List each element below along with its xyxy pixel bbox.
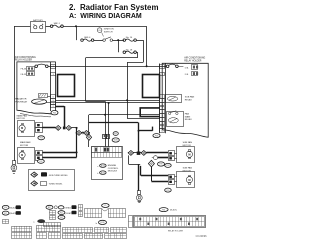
svg-text:B135: B135 — [101, 222, 105, 224]
connector grid F2 — [62, 233, 82, 238]
svg-text:SUB FAN: SUB FAN — [185, 96, 195, 99]
thick jumper loop (left) — [58, 75, 75, 97]
node B junction — [117, 39, 119, 41]
svg-text:FB-38: FB-38 — [21, 69, 27, 71]
node J junction — [76, 151, 78, 153]
air conditioning relay holder (left) box — [17, 62, 56, 114]
wire thick bus vertical — [138, 122, 140, 153]
ECM top connector row 1 — [92, 147, 122, 153]
connector grid H — [111, 228, 127, 233]
node H junction — [76, 127, 78, 129]
wire bus vertical x127 — [127, 62, 160, 118]
svg-text:B136: B136 — [114, 140, 118, 142]
connector oval F24 — [38, 159, 45, 163]
wire bus y100 — [56, 100, 160, 102]
svg-text:B135: B135 — [101, 172, 105, 174]
connector oval F66 — [153, 134, 160, 138]
svg-text:12: 12 — [161, 130, 163, 132]
legend badge turbo — [41, 182, 47, 186]
main fan motor 1 label — [17, 114, 28, 120]
ECM pin a oval B134 — [97, 164, 106, 168]
svg-text:M: M — [21, 126, 23, 130]
relay holder grid — [134, 216, 206, 228]
svg-text:6: 6 — [162, 112, 163, 114]
svg-text:IGNITION: IGNITION — [104, 29, 114, 31]
svg-text:AIR CONDITIONING: AIR CONDITIONING — [184, 56, 205, 59]
diode D/B label — [185, 74, 189, 76]
fuse FB-38 label — [21, 69, 27, 71]
label GRAY 1 — [65, 206, 72, 209]
radiator fan relay coil — [32, 94, 48, 105]
main fan motor 2 label — [20, 141, 31, 147]
diode D/B — [192, 72, 199, 76]
connector main fan motor 1 — [36, 123, 43, 133]
wire battery left — [14, 26, 30, 28]
diode D/A label — [185, 66, 189, 69]
svg-text:SWITCH: SWITCH — [104, 31, 113, 33]
svg-text:1: 1 — [162, 96, 163, 98]
connector grid B — [36, 225, 61, 232]
fuse No.18 — [123, 51, 136, 54]
legend badge non-turbo — [41, 172, 47, 176]
fuse FB-39 — [27, 72, 35, 76]
svg-text:b: b — [97, 173, 98, 175]
label F66 color — [170, 209, 177, 212]
svg-text:SUB FAN: SUB FAN — [183, 167, 193, 170]
left box bottom tear line — [20, 114, 51, 117]
wire SBF-4 to switch — [94, 40, 103, 42]
svg-text:RELAY: RELAY — [185, 99, 193, 102]
svg-text:FAN RELAY: FAN RELAY — [15, 100, 27, 103]
wire row2 horizontal — [77, 132, 89, 134]
wire thick ground vertical — [138, 164, 140, 191]
ground G1 — [11, 161, 17, 174]
connector oval F41 — [58, 211, 65, 215]
air conditioning relay holder (right) label — [184, 56, 205, 62]
svg-text:M: M — [21, 153, 23, 157]
badge grid mid row2 — [78, 212, 83, 217]
wire motor1 thick — [42, 127, 55, 129]
svg-text:F66: F66 — [155, 135, 158, 137]
right box pin strip — [160, 64, 166, 134]
svg-text:: NON-TURBO MODEL: : NON-TURBO MODEL — [48, 175, 68, 177]
wire motor2 thick bottom — [42, 157, 76, 159]
node G junction — [88, 132, 90, 134]
svg-text:RELAY HOLDER: RELAY HOLDER — [168, 230, 184, 233]
wire node B down — [118, 40, 120, 52]
title line 2 — [69, 13, 142, 20]
diode D/A — [192, 65, 199, 70]
connector thin grid — [44, 223, 61, 227]
thick jumper U (right) — [140, 108, 160, 117]
svg-text:ENGINE: ENGINE — [108, 165, 117, 167]
svg-text:A: WIRING DIAGRAM: A: WIRING DIAGRAM — [69, 13, 142, 20]
connector sub fan motor 1 — [169, 151, 175, 161]
svg-text:AIR CONDITIONING: AIR CONDITIONING — [15, 56, 36, 59]
svg-text:F19: F19 — [166, 190, 169, 192]
connector grid F5 left — [84, 209, 102, 218]
fuse FB-39 label — [21, 74, 27, 76]
ignition switch symbol IG — [97, 28, 103, 37]
svg-text:F42: F42 — [60, 217, 63, 219]
main fan motor 2 M2 — [18, 148, 35, 164]
wire bus y103 — [56, 102, 160, 104]
badge grid mid row1 — [78, 205, 83, 211]
label b B135 view — [96, 220, 107, 225]
connector grid G — [95, 228, 109, 233]
svg-text:F49: F49 — [160, 164, 163, 166]
svg-text:RELAY: RELAY — [185, 118, 193, 121]
svg-text:(GRAY): (GRAY) — [65, 212, 72, 215]
node I junction — [76, 132, 78, 134]
connector oval F5 — [102, 204, 110, 208]
fuse FB-38 — [27, 67, 35, 71]
connector diamond pair row3 — [128, 151, 146, 156]
doc number — [196, 235, 207, 238]
svg-text:2: 2 — [53, 106, 54, 108]
connector circle node — [152, 156, 158, 160]
wire x89 vertical — [88, 115, 90, 135]
svg-text:M: M — [188, 152, 190, 156]
wire motorB bottom — [151, 167, 168, 182]
svg-text:B21: B21 — [114, 133, 117, 135]
legend text turbo — [48, 184, 63, 186]
svg-text:5: 5 — [53, 100, 54, 102]
connector diamond down C — [148, 160, 154, 167]
wire motorB box link — [175, 177, 177, 182]
ECM pin highlight 3 — [95, 148, 97, 152]
svg-text:B134: B134 — [101, 165, 105, 167]
wire thick relay branch — [56, 106, 65, 128]
wire thick motorA bottom — [158, 157, 168, 159]
svg-text:RELAY HOLDER: RELAY HOLDER — [184, 59, 202, 62]
connector grid G2 — [84, 233, 103, 238]
badge F16 — [16, 205, 21, 209]
ECM pin highlight 2 — [107, 148, 109, 152]
radiator fan relay label — [15, 98, 27, 104]
badge row2 mid — [72, 211, 77, 215]
connector oval F66 view — [159, 208, 168, 212]
svg-text:F17: F17 — [4, 213, 7, 215]
wire ECM feed 2 — [108, 103, 110, 147]
junction block row3 — [137, 152, 141, 155]
ECM pin b oval B135 — [97, 171, 106, 175]
ignition switch label — [104, 29, 114, 34]
svg-text:F63: F63 — [53, 112, 56, 114]
battery B1 label — [33, 19, 43, 22]
label GRAY 2 — [65, 212, 72, 215]
wire node A down — [76, 26, 78, 40]
svg-text:F18: F18 — [166, 165, 169, 167]
node C junction — [146, 65, 148, 67]
wire bus y114.7 — [89, 114, 160, 116]
svg-text:F24: F24 — [39, 161, 42, 163]
wire main vertical from battery line — [146, 26, 148, 66]
connector oval F42 — [58, 215, 65, 219]
engine control module box — [92, 147, 123, 180]
sub fan relay — [166, 95, 182, 103]
wire battery right — [46, 26, 51, 28]
main fan motor 1 M1 — [18, 121, 35, 137]
ECM top connector row 2 — [92, 152, 122, 157]
badge row1 mid — [72, 205, 77, 209]
connector oval F23 — [38, 136, 45, 140]
svg-text:9: 9 — [162, 119, 163, 121]
sub fan motor 1 M3 — [177, 147, 195, 163]
svg-text:SUB FAN: SUB FAN — [183, 141, 193, 144]
relay contact (left box) — [35, 64, 48, 67]
connector diamond to ECM — [86, 134, 91, 140]
connector grid F5 right — [108, 209, 126, 218]
legend diamond turbo — [31, 181, 38, 186]
wire fuse14 out — [127, 40, 143, 62]
connector oval F63 — [51, 111, 58, 115]
battery B1 — [31, 22, 46, 33]
connector oval F16 — [2, 205, 9, 209]
main fan relay — [167, 111, 184, 127]
ECM label — [108, 165, 119, 173]
svg-text:: TURBO MODEL: : TURBO MODEL — [48, 184, 63, 186]
wire row1 to x76.6 — [72, 127, 77, 129]
wire motorA box link — [175, 154, 177, 159]
node F junction — [104, 114, 106, 116]
svg-text:1: 1 — [53, 66, 54, 68]
svg-text:3: 3 — [162, 100, 163, 102]
connector diamond pair row2 — [76, 131, 89, 136]
connector grid E — [49, 233, 61, 239]
junction block row1 — [63, 127, 66, 130]
connector grid H2 — [105, 233, 127, 238]
left box pin strip — [51, 62, 56, 111]
label a B134 view — [33, 219, 45, 223]
ECM harness connector block — [103, 135, 110, 139]
legend diamond non-turbo — [31, 172, 38, 177]
connector grid D — [36, 233, 47, 239]
svg-text:FB-39: FB-39 — [21, 74, 27, 76]
connector oval B136 — [112, 138, 119, 142]
air conditioning relay holder (right) box — [162, 63, 208, 137]
connector oval F18 — [165, 163, 172, 167]
svg-text:MAIN FAN: MAIN FAN — [20, 141, 31, 144]
connector grid A — [12, 226, 32, 232]
sub fan motor 2 M4 — [177, 172, 195, 188]
svg-text:MAIN: MAIN — [185, 115, 191, 118]
svg-text:4: 4 — [162, 74, 163, 76]
svg-text:F41: F41 — [60, 212, 63, 214]
wire thick motorB top — [141, 166, 169, 176]
fuse SBF-4 — [81, 39, 94, 42]
svg-text:3: 3 — [53, 74, 54, 76]
fuse SBF-1 label — [54, 23, 61, 25]
wire motor2 thick top — [42, 152, 76, 154]
svg-text:F16: F16 — [4, 207, 7, 209]
svg-text:8: 8 — [162, 115, 163, 117]
fuse No.18 label — [126, 49, 133, 51]
wire left vertical to ground — [14, 26, 16, 161]
svg-text:MAIN FAN: MAIN FAN — [17, 114, 28, 117]
sub fan motor 2 label — [183, 167, 193, 173]
svg-text:M: M — [188, 178, 190, 182]
svg-text:F66: F66 — [162, 209, 165, 211]
svg-text:MOTOR: MOTOR — [17, 118, 26, 120]
svg-text:CO-96/96: CO-96/96 — [196, 235, 207, 238]
label F16 color — [10, 207, 18, 210]
wire thick to F66 — [139, 127, 153, 131]
connector oval F17 — [2, 211, 9, 215]
connector oval F49 — [158, 162, 165, 166]
connector grid C — [12, 233, 32, 239]
connector grid F5 notch — [102, 209, 108, 212]
svg-text:CONTROL: CONTROL — [108, 168, 119, 170]
sub fan motor 1 label — [183, 141, 193, 147]
svg-text:F5: F5 — [104, 205, 106, 207]
svg-text:2: 2 — [162, 66, 163, 68]
node K junction — [138, 130, 140, 132]
svg-text:6: 6 — [53, 96, 54, 98]
svg-text:2. Radiator Fan System: 2. Radiator Fan System — [69, 3, 158, 12]
connector oval B37 — [46, 205, 53, 209]
relay holder label — [168, 230, 184, 233]
badge grid row3 left — [2, 220, 8, 224]
wire relay stub 1 — [47, 96, 50, 98]
wire relay stub 2 — [47, 102, 51, 104]
main fan relay label — [185, 113, 193, 122]
svg-text:11: 11 — [161, 123, 163, 125]
legend box — [29, 170, 75, 191]
connector grid F — [62, 228, 93, 233]
svg-text:B37: B37 — [48, 207, 51, 209]
connector circle pin a1 — [54, 206, 64, 209]
node E junction — [108, 102, 110, 104]
air conditioning relay holder (left) label — [15, 56, 36, 62]
svg-text:a: a — [97, 166, 98, 168]
label F17 color — [10, 212, 18, 215]
svg-text:(BLACK): (BLACK) — [170, 209, 177, 212]
fuse SBF-1 — [50, 25, 63, 28]
wire ECM feed 1 — [86, 101, 106, 146]
badge grid mid 3 — [49, 215, 55, 219]
svg-text:MOTOR: MOTOR — [20, 145, 29, 147]
relay contact (right box) — [166, 64, 183, 67]
fuse SBF-4 label — [84, 37, 91, 39]
wire thick y122.4 — [89, 122, 138, 124]
wire x76.6 vertical — [76, 128, 78, 157]
connector diamond pair row1 — [56, 126, 72, 131]
connector oval F19 — [165, 188, 172, 192]
wire switch to node B — [113, 40, 125, 42]
node D junction — [126, 99, 128, 101]
fuse No.14 — [123, 39, 136, 42]
connector oval B21 — [113, 132, 118, 136]
svg-text:5: 5 — [162, 104, 163, 106]
wire relay line y66 — [48, 66, 166, 68]
relay holder small block — [128, 216, 132, 228]
svg-text:RELAY HOLDER: RELAY HOLDER — [15, 59, 33, 62]
svg-text:(GRAY): (GRAY) — [65, 206, 72, 209]
wire row3 elbow left — [129, 155, 141, 164]
thick jumper loop (right) — [143, 75, 160, 98]
badge grid mid 2 — [49, 211, 55, 215]
ECM pin highlight 1 — [104, 148, 106, 152]
wire diamond to ECM — [88, 140, 90, 147]
ground G2 — [136, 191, 142, 203]
connector main fan motor 2 — [36, 151, 43, 161]
svg-text:FAN: FAN — [185, 113, 190, 116]
wire fuse18 out — [86, 52, 138, 101]
switch SW1 — [103, 37, 113, 41]
wire to node A — [63, 26, 146, 28]
fuse No.14 label — [126, 37, 133, 39]
svg-text:RADIATOR: RADIATOR — [15, 98, 27, 101]
svg-text:F23: F23 — [40, 138, 43, 140]
svg-text:MODULE: MODULE — [108, 171, 118, 173]
svg-text:SBF-1: SBF-1 — [54, 23, 61, 25]
node A junction — [75, 25, 77, 27]
legend text non-turbo — [48, 175, 68, 177]
sub fan relay label — [185, 96, 195, 102]
title line 1 — [69, 3, 158, 12]
connector sub fan motor 2 — [169, 175, 175, 185]
badge F17 — [16, 211, 21, 215]
wire diamond row3 — [128, 152, 168, 154]
